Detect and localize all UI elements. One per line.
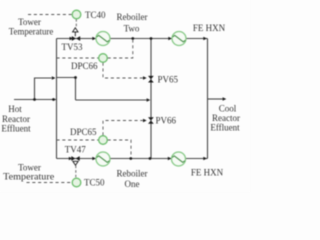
arrow into reboiler one bbox=[92, 157, 96, 161]
arrow cool effluent outlet bbox=[223, 97, 227, 101]
svg-text:Effluent: Effluent bbox=[210, 123, 240, 133]
svg-text:TC40: TC40 bbox=[85, 10, 106, 20]
junction node on feed bbox=[33, 98, 36, 101]
svg-text:Hot: Hot bbox=[8, 104, 22, 114]
wire: left riser bbox=[56, 39, 58, 159]
heat exchanger reboiler one bbox=[96, 152, 110, 166]
arrow at top line end bbox=[203, 37, 207, 41]
arrow feed jog into riser bbox=[52, 76, 56, 80]
signal line DPC65 right tap to bottom line bbox=[108, 140, 131, 157]
svg-text:Effluent: Effluent bbox=[1, 124, 31, 134]
svg-text:Reboiler: Reboiler bbox=[117, 168, 148, 178]
signal line DPC66 right tap to top line bbox=[108, 40, 133, 58]
svg-text:TV53: TV53 bbox=[62, 42, 83, 52]
arrow into reboiler two bbox=[92, 37, 96, 41]
valve TV47 bbox=[71, 156, 79, 165]
svg-text:FE HXN: FE HXN bbox=[193, 23, 226, 33]
svg-text:Reactor: Reactor bbox=[2, 114, 30, 124]
valve PV66 bbox=[148, 117, 154, 124]
wire: bottom branch line bbox=[57, 158, 208, 160]
junction node bypass corner bbox=[74, 76, 77, 79]
arrow into TV53 bbox=[70, 37, 74, 41]
heat exchanger top FE HXN bbox=[172, 32, 186, 46]
svg-text:Reboiler: Reboiler bbox=[117, 12, 148, 22]
valve PV65 bbox=[148, 76, 154, 83]
signal line tower temp to TC40 bbox=[28, 14, 72, 16]
signal line DPC65 to PV66 bbox=[103, 121, 143, 136]
svg-text:PV65: PV65 bbox=[158, 75, 179, 85]
arrow bypass into PV riser bbox=[147, 98, 151, 102]
wire: bypass take-off jog bbox=[57, 78, 147, 101]
junction node PV riser at top line bbox=[150, 37, 153, 40]
svg-text:PV66: PV66 bbox=[156, 116, 177, 126]
signal line TV47 actuator to TC50 bbox=[75, 166, 77, 178]
svg-text:Tower: Tower bbox=[18, 17, 41, 27]
heat exchanger bottom FE HXN bbox=[172, 152, 186, 166]
svg-text:Temperature: Temperature bbox=[3, 172, 54, 182]
heat exchanger reboiler two bbox=[96, 32, 110, 46]
svg-text:DPC66: DPC66 bbox=[71, 61, 98, 71]
wire: PV bypass riser bbox=[150, 39, 152, 159]
controller TC40 bbox=[72, 10, 81, 19]
arrow into bottom FE HXN bbox=[168, 157, 172, 161]
controller TC50 bbox=[72, 178, 81, 187]
signal line riser tap to DPC66 bbox=[57, 57, 99, 59]
controller DPC66 bbox=[99, 54, 108, 63]
svg-text:One: One bbox=[125, 179, 140, 189]
svg-text:Reactor: Reactor bbox=[212, 113, 240, 123]
arrow signal into PV65 bbox=[143, 76, 147, 80]
junction node feed at riser bbox=[52, 98, 55, 101]
wire: cool effluent outlet bbox=[208, 98, 223, 100]
arrow into top FE HXN bbox=[168, 37, 172, 41]
svg-text:DPC65: DPC65 bbox=[70, 127, 97, 137]
svg-text:Temperature: Temperature bbox=[9, 27, 54, 37]
svg-text:TV47: TV47 bbox=[65, 145, 86, 155]
svg-text:Two: Two bbox=[124, 24, 140, 34]
junction node DPC66 tap on top line bbox=[131, 37, 134, 40]
junction node PV riser at bottom line bbox=[149, 157, 152, 160]
junction node DPC65 tap on bottom line bbox=[129, 157, 132, 160]
signal line DPC66 to PV65 bbox=[103, 63, 143, 78]
signal line tower temp to TC50 bbox=[27, 182, 72, 184]
wire: top branch line bbox=[57, 38, 208, 40]
arrow into TV47 bbox=[69, 157, 73, 161]
arrow signal into PV66 bbox=[143, 119, 147, 123]
signal line TC40 to TV53 actuator bbox=[75, 19, 77, 28]
svg-text:FE HXN: FE HXN bbox=[191, 167, 224, 177]
arrow at bottom line end bbox=[203, 157, 207, 161]
signal line riser tap to DPC65 bbox=[57, 139, 99, 141]
wire: hot effluent feed line bbox=[14, 99, 56, 101]
valve TV53 bbox=[72, 28, 80, 41]
controller DPC65 bbox=[99, 136, 108, 145]
wire: right riser bbox=[207, 39, 209, 159]
svg-text:TC50: TC50 bbox=[84, 178, 105, 188]
wire: feed up-jog to riser bbox=[35, 78, 52, 100]
